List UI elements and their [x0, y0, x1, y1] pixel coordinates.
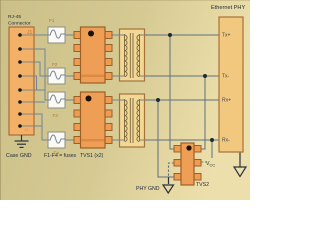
wire: TVS1b pin1 right to transformer T2 [112, 99, 120, 101]
case ground symbol [15, 135, 29, 147]
svg-text:Rx+: Rx+ [222, 98, 231, 104]
wire: connector pin5 [34, 89, 45, 91]
wire: connector pin8 [34, 125, 42, 127]
wire: PHY GND stem [168, 177, 170, 184]
svg-text:VCC: VCC [206, 161, 215, 168]
wire: connector pin4 stub [34, 76, 37, 91]
edge vignette top [0, 0, 250, 1]
svg-text:Tx-: Tx- [222, 74, 230, 80]
edge vignette left [0, 0, 1, 200]
connector pin stub wires [20, 35, 34, 126]
svg-text:TVS1 (x2): TVS1 (x2) [80, 153, 104, 159]
fuse F2 [48, 68, 65, 84]
wire: connector pin2 to F3 via vertical [34, 49, 48, 100]
wire: F2 out to TVS1a pin4 [65, 75, 74, 77]
fuse F1 [48, 27, 65, 43]
wire: Rx- net T2 to PHY [145, 139, 220, 141]
svg-text:Rx-: Rx- [222, 138, 230, 144]
svg-text:F1-F4 = fuses: F1-F4 = fuses [44, 153, 77, 159]
wire: Rx+ net T2 to PHY [145, 99, 220, 101]
transformer T2 internal leads [120, 100, 145, 140]
svg-text:Case GND: Case GND [6, 153, 32, 159]
wire: PHY Vcc ground stem [239, 152, 241, 167]
svg-text:F1: F1 [49, 18, 55, 23]
wire: connector pin3 to F2 [34, 62, 48, 76]
wire: Tx- net T1 to PHY [145, 75, 220, 77]
svg-text:RJ-45: RJ-45 [8, 14, 21, 20]
PHY ground triangle [234, 167, 246, 177]
wire: F3 out to TVS1b pin1 [65, 99, 74, 101]
svg-text:J1: J1 [27, 30, 33, 36]
wire: connector pin1 to F1 [34, 34, 48, 36]
wire: Rx- drop to Vcc node [211, 140, 213, 158]
transformer T2 [120, 94, 145, 147]
transformer T1 internal leads [120, 35, 145, 76]
wire: dashed Vcc link right [201, 161, 206, 163]
junction node Tx- [203, 74, 207, 78]
connector J1 body [9, 27, 34, 135]
wire: Tx+ drop to TVS2 pin1 [170, 35, 174, 149]
wire: F4 out to TVS1b pin4 [65, 139, 74, 141]
fuse F4 [48, 132, 65, 148]
wire: F1 out to TVS1a pin1 [65, 34, 74, 36]
TVS2 IC [174, 143, 201, 185]
wire: dashed link TVS2 middle-left pin to ground [169, 163, 175, 177]
svg-text:F4: F4 [54, 151, 60, 156]
TVS1 IC b [74, 92, 112, 148]
wire: connector pin7 to F4 via vertical [34, 114, 48, 140]
wire: Rx+ drop to TVS2 bottom-left pin [158, 100, 174, 177]
connector pin dots [18, 33, 22, 128]
svg-text:PHY GND: PHY GND [136, 186, 160, 192]
svg-text:Tx+: Tx+ [222, 33, 231, 39]
wire: TVS1a pin1 right to transformer T1 [112, 34, 120, 36]
junction node Rx+ [156, 98, 160, 102]
wire: Tx+ net T1 to PHY [145, 34, 220, 36]
PHY GND triangle [163, 185, 174, 193]
svg-text:F3: F3 [53, 113, 59, 118]
svg-text:Connector: Connector [8, 20, 31, 26]
wire: TVS1a pin4 right to transformer T1 [112, 75, 120, 77]
transformer T1 [120, 29, 145, 81]
fuse F3 [48, 92, 65, 108]
Ethernet PHY box [219, 17, 243, 152]
junction node Rx- [210, 138, 214, 142]
svg-text:Ethernet PHY: Ethernet PHY [211, 5, 245, 11]
wire: connector pin6 [34, 101, 45, 103]
junction node Tx+ [168, 33, 172, 37]
wire: TVS1b pin4 right to transformer T2 [112, 139, 120, 141]
wire: Tx- drop to TVS2 top-right pin [201, 76, 205, 149]
TVS1 IC a [74, 27, 112, 83]
svg-text:F2: F2 [52, 62, 58, 67]
svg-text:TVS2: TVS2 [196, 182, 209, 188]
